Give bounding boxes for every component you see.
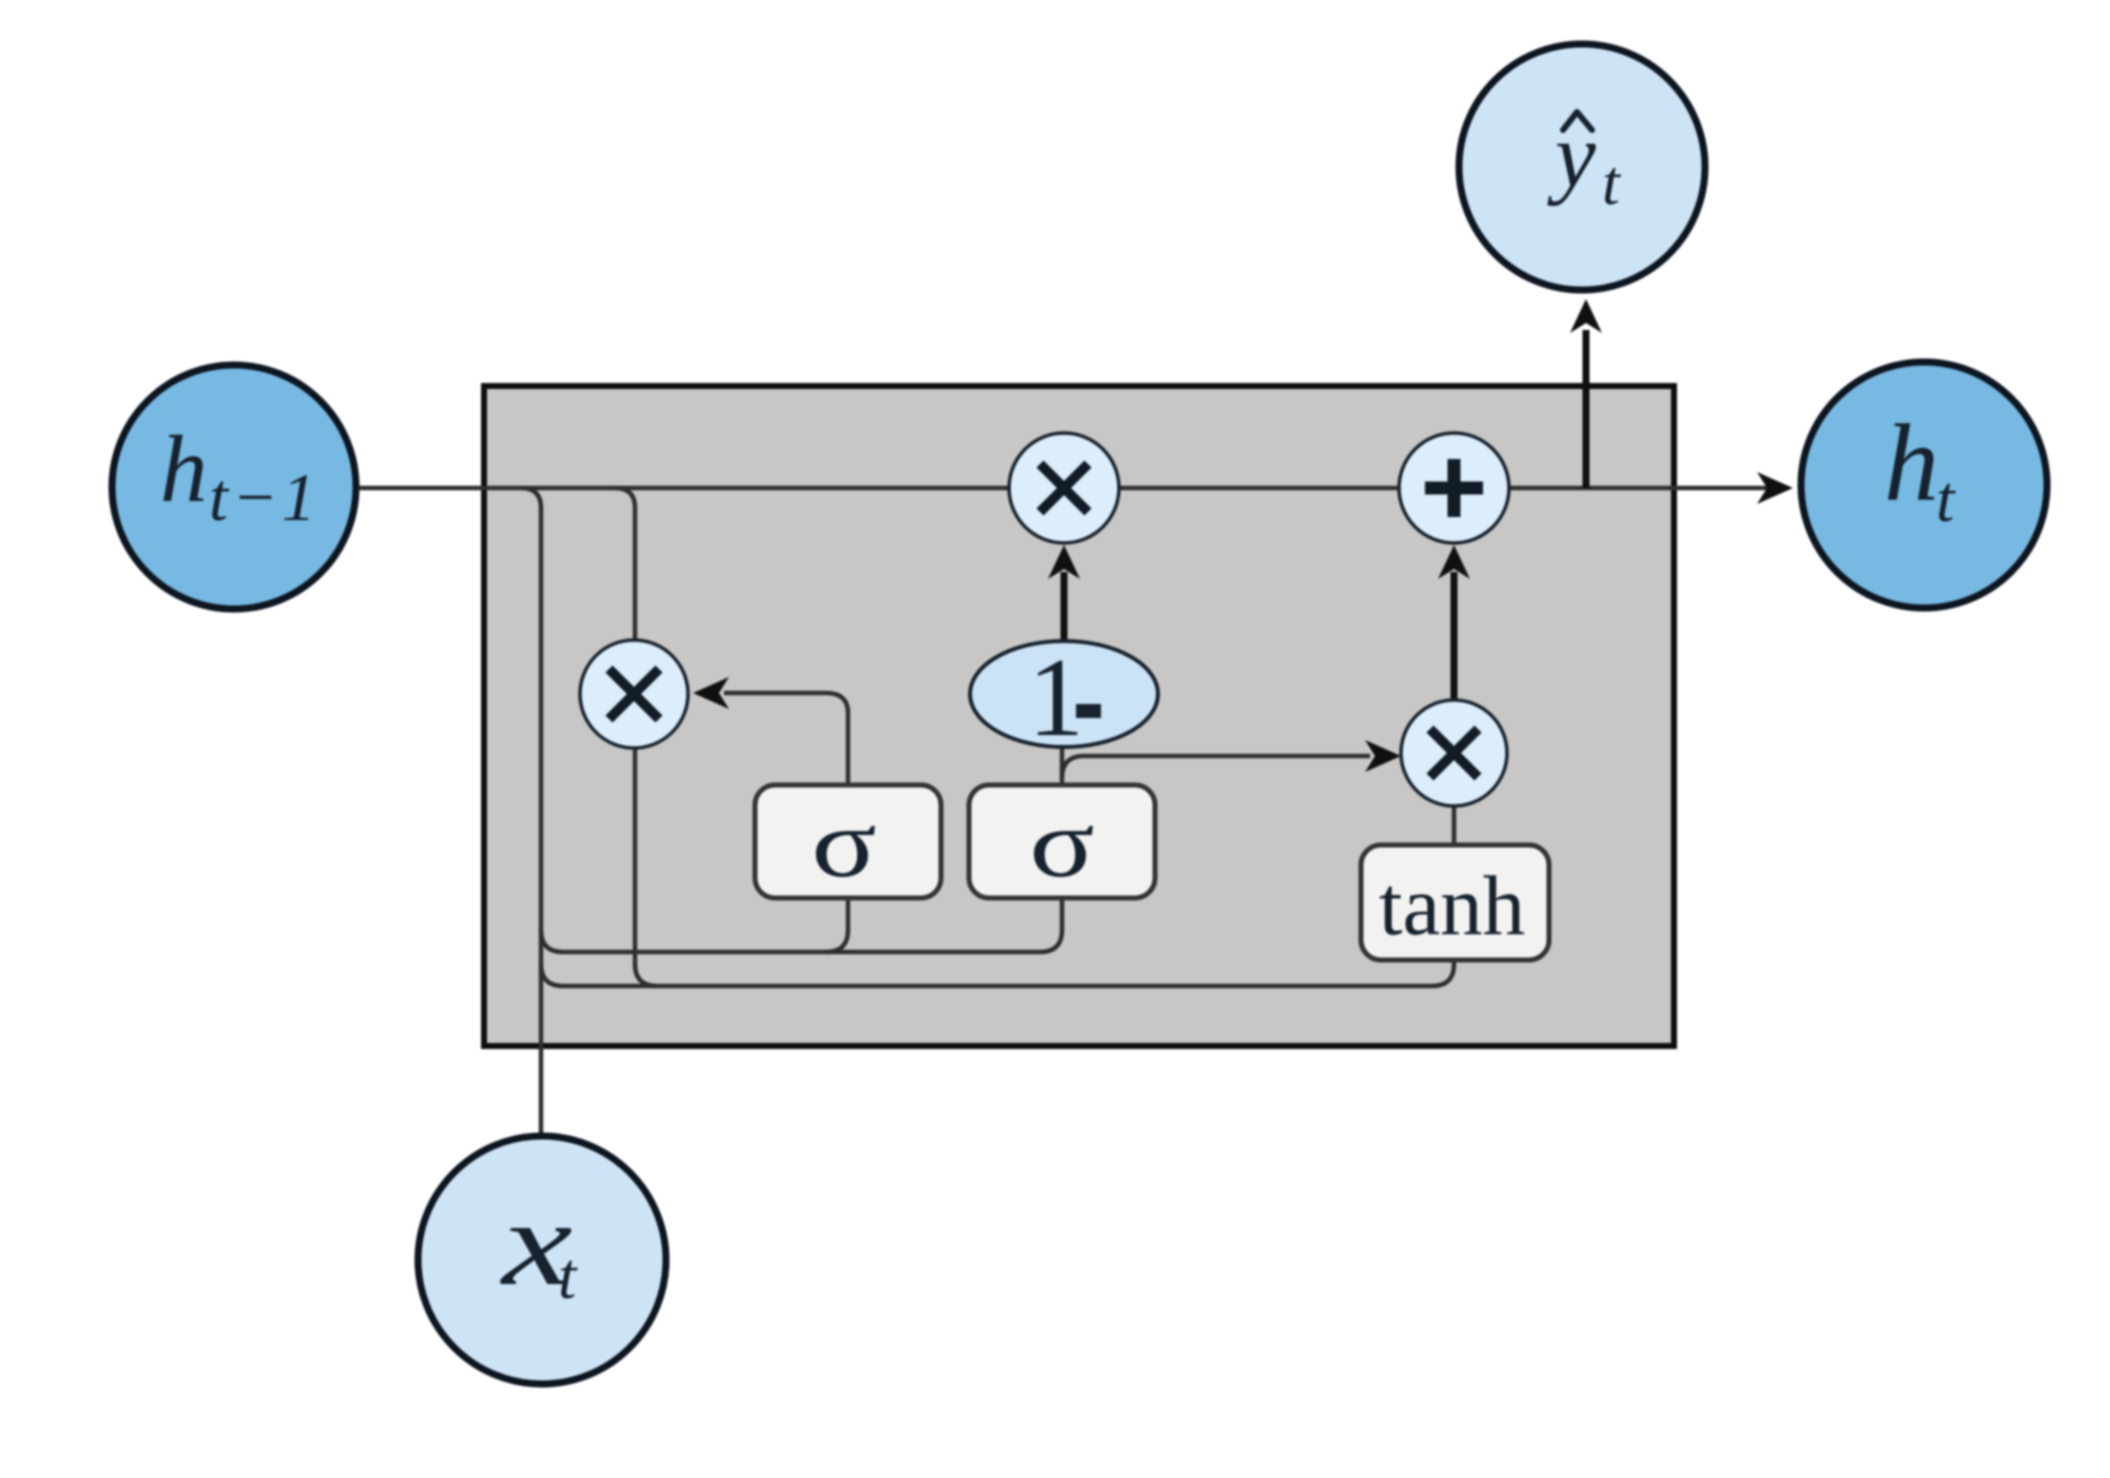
svg-text:1: 1 — [1028, 636, 1084, 760]
svg-text:h: h — [160, 416, 208, 522]
svg-text:t: t — [1936, 463, 1956, 536]
svg-text:t: t — [1602, 147, 1622, 218]
svg-text:t−1: t−1 — [209, 459, 320, 535]
svg-text:h: h — [1884, 402, 1939, 524]
svg-text:tanh: tanh — [1379, 859, 1525, 953]
svg-text:σ: σ — [811, 789, 876, 897]
svg-text:σ: σ — [1029, 789, 1094, 897]
svg-text:t: t — [558, 1240, 578, 1313]
